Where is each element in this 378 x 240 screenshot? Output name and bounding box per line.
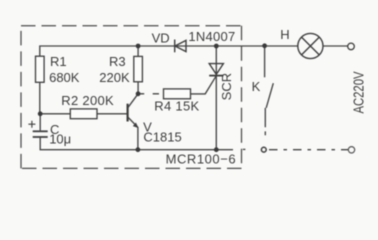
svg-text:H: H	[280, 27, 289, 42]
svg-text:R1: R1	[50, 54, 67, 69]
svg-text:1N4007: 1N4007	[188, 29, 235, 44]
svg-text:220K: 220K	[99, 70, 130, 85]
svg-text:R2 200K: R2 200K	[61, 93, 114, 108]
svg-text:SCR: SCR	[219, 73, 234, 100]
svg-text:10μ: 10μ	[49, 132, 71, 147]
svg-text:MCR100−6: MCR100−6	[166, 152, 237, 167]
svg-text:AC220V: AC220V	[351, 72, 368, 114]
svg-text:VD: VD	[152, 31, 170, 46]
svg-text:C1815: C1815	[143, 130, 181, 145]
svg-text:R4 15K: R4 15K	[154, 98, 199, 113]
svg-text:680K: 680K	[49, 70, 80, 85]
svg-text:R3: R3	[109, 54, 126, 69]
svg-text:K: K	[252, 79, 261, 94]
